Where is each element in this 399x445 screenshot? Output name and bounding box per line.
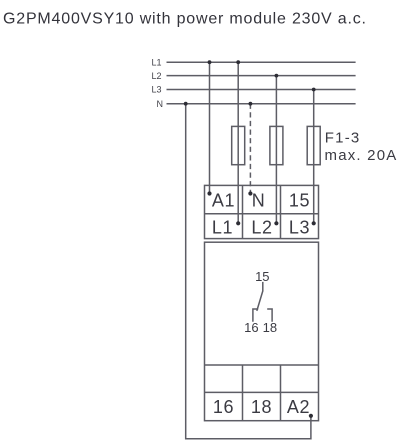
terminal dot L3 bbox=[312, 221, 316, 225]
svg-text:16: 16 bbox=[244, 320, 258, 335]
junction L3/fuse wire bbox=[312, 88, 316, 92]
wire L1 to A1 bbox=[209, 62, 211, 193]
svg-text:L3: L3 bbox=[151, 85, 161, 95]
bottom terminal rows bbox=[205, 365, 319, 421]
svg-text:15: 15 bbox=[255, 269, 269, 284]
junction N/dashed wire bbox=[249, 102, 253, 106]
fuse value label F1-3 max. 20A bbox=[325, 129, 398, 164]
switch contact 16 bbox=[253, 309, 258, 322]
svg-text:15: 15 bbox=[289, 191, 310, 211]
svg-text:G2PM400VSY10 with power module: G2PM400VSY10 with power module 230V a.c. bbox=[3, 11, 367, 28]
terminal dot L2 bbox=[274, 221, 278, 225]
svg-text:L1: L1 bbox=[212, 218, 233, 238]
fuse F3 bbox=[307, 126, 320, 164]
terminal dot A1 bbox=[207, 191, 211, 195]
net L2 bbox=[151, 71, 355, 81]
svg-text:max. 20A: max. 20A bbox=[325, 147, 398, 164]
wire L2 through F2 to terminal L2 bbox=[275, 76, 277, 224]
net L3 bbox=[151, 85, 355, 95]
svg-text:18: 18 bbox=[251, 397, 272, 417]
junction L1/A1 wire bbox=[208, 60, 212, 64]
net N bbox=[157, 99, 356, 109]
svg-text:N: N bbox=[157, 99, 164, 109]
terminal dot A2 bbox=[309, 414, 313, 418]
svg-text:A1: A1 bbox=[212, 191, 235, 211]
svg-text:L3: L3 bbox=[289, 218, 310, 238]
junction L2/fuse wire bbox=[275, 74, 279, 78]
wire L3 through F3 to terminal L3 bbox=[313, 90, 315, 224]
wire N dashed to terminal N bbox=[249, 104, 251, 194]
svg-text:F1-3: F1-3 bbox=[325, 129, 361, 146]
svg-text:16: 16 bbox=[213, 397, 234, 417]
svg-text:A2: A2 bbox=[287, 397, 310, 417]
terminal dot N bbox=[248, 191, 252, 195]
terminal block top bbox=[205, 185, 319, 238]
junction L1/fuse wire bbox=[236, 60, 240, 64]
net L1 bbox=[151, 57, 355, 67]
svg-text:L1: L1 bbox=[151, 57, 161, 67]
svg-text:18: 18 bbox=[263, 320, 277, 335]
svg-text:L2: L2 bbox=[151, 71, 161, 81]
fuse F1 bbox=[232, 126, 245, 164]
svg-text:L2: L2 bbox=[251, 218, 272, 238]
junction N/v1 bbox=[184, 102, 188, 106]
switch pole wire and lever bbox=[257, 282, 263, 311]
switch contact 18 bbox=[267, 309, 272, 322]
terminal dot L1 bbox=[236, 221, 240, 225]
wire N to A2 bbox=[186, 104, 311, 439]
svg-text:N: N bbox=[252, 191, 266, 211]
relay body U1 bbox=[205, 242, 319, 421]
wire L1 through F1 to terminal L1 bbox=[237, 62, 239, 223]
fuse F2 bbox=[270, 126, 283, 164]
